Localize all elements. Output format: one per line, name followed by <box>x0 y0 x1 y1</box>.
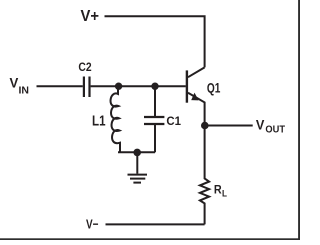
svg-text:R: R <box>214 183 222 197</box>
capacitor C2 <box>84 77 90 98</box>
junction dot: ground node <box>133 149 141 157</box>
svg-text:IN: IN <box>19 84 30 96</box>
svg-text:V: V <box>10 76 19 91</box>
svg-text:V+: V+ <box>81 8 100 25</box>
wire output node to VOUT <box>205 125 253 127</box>
svg-text:V: V <box>256 116 265 132</box>
junction dot: C1 tap <box>151 83 158 90</box>
wire C2 to Q1 base <box>91 85 186 87</box>
wire VIN to C2 <box>37 85 83 87</box>
wire RL bottom to V- <box>106 223 205 225</box>
svg-text:OUT: OUT <box>265 124 285 136</box>
resistor RL <box>200 126 209 225</box>
svg-text:L1: L1 <box>92 114 106 130</box>
svg-text:L: L <box>222 188 227 199</box>
ground <box>128 152 148 182</box>
svg-text:V−: V− <box>86 217 99 232</box>
net VIN label <box>10 76 30 97</box>
svg-text:C2: C2 <box>78 60 91 74</box>
svg-text:C1: C1 <box>166 114 181 128</box>
wire L1/C1 bottom to ground <box>118 151 155 153</box>
inductor L1 <box>111 86 120 152</box>
wire V+ rail to Q1 collector <box>105 16 205 67</box>
capacitor C1 <box>144 86 164 152</box>
svg-text:Q1: Q1 <box>207 80 221 96</box>
label RL <box>214 183 227 200</box>
junction dot: L1 tap <box>115 83 122 90</box>
junction dot: output node <box>201 122 209 130</box>
net VOUT label <box>256 116 286 135</box>
transistor Q1 <box>187 67 205 125</box>
